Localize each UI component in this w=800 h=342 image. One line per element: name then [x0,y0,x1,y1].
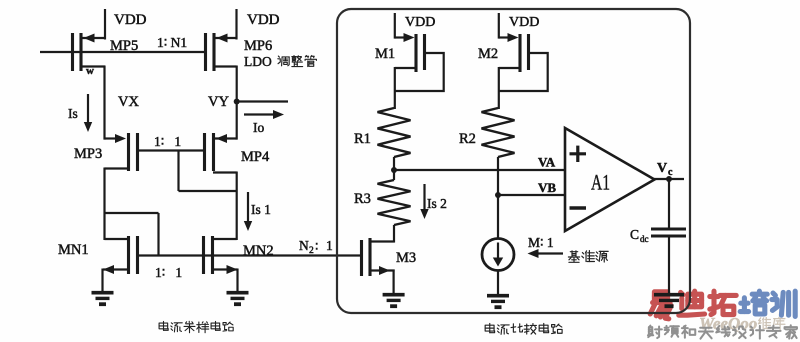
wire Vc to capacitor [668,178,670,229]
label 电流采样电路 [159,321,233,332]
wire gate bus MN1-MN2-M3 [139,254,361,256]
svg-text:MP5: MP5 [110,38,138,54]
label ratio 1:1 (bottom) [155,265,182,280]
svg-text:1: 1 [326,238,333,253]
wire capacitor to ground [668,236,670,295]
label 基准源 [568,251,608,263]
transistor M2 [499,33,548,91]
wire M1 drain vertical [394,67,396,109]
watermark text 射频和天线设计专家 [648,325,797,338]
svg-text:VDD: VDD [247,12,280,28]
label Cdc [630,227,649,244]
svg-text:MN1: MN1 [58,242,89,258]
wire current source to ground [497,271,499,296]
svg-text:A1: A1 [591,170,610,195]
watermark text 培训 [740,291,795,316]
svg-text:Is 2: Is 2 [427,196,447,211]
watermark text 维库 [758,317,784,329]
svg-text:1∶ 1: 1∶ 1 [155,265,182,280]
wire MP3 drain vertical [103,168,105,241]
current arrow Is [68,94,92,132]
wire MP4 diode connection [179,151,237,192]
label MP6 [244,38,272,54]
label 电流比较电路 [485,323,562,334]
label Vc [657,161,673,178]
label VA [538,155,556,170]
svg-text:C: C [630,227,639,242]
label ratio 1:N1 [157,35,187,50]
current arrow Io [244,110,284,135]
svg-text:2: 2 [309,246,314,256]
svg-text:c: c [668,167,673,178]
wire MN1 diode connection [105,213,159,256]
svg-text:Is 1: Is 1 [251,202,271,217]
svg-text:VDD: VDD [509,15,539,30]
ground M3 [383,295,405,307]
svg-text:R2: R2 [459,131,476,147]
label M1 [375,46,395,62]
svg-text:M∶ 1: M∶ 1 [528,235,554,250]
wire VB to op-amp [498,194,566,196]
label VX [118,94,139,110]
label MN2 [243,243,274,259]
svg-text:M3: M3 [396,250,416,266]
VDD supply MP5 [105,9,147,40]
svg-text:VDD: VDD [405,15,435,30]
wire node VY vertical [236,66,238,140]
label A1 [591,170,610,195]
transistor MP5 [73,33,106,71]
svg-text:VDD: VDD [114,12,147,28]
boundary box 电流比较电路 [337,9,690,313]
watermark text 易迪拓 [650,291,736,319]
current source reference [482,239,514,271]
svg-text:VX: VX [118,94,139,110]
transistor MN1 [103,236,138,274]
svg-text:Is: Is [68,106,78,121]
svg-text:VB: VB [538,180,556,195]
svg-text:MP6: MP6 [244,38,272,54]
svg-text:V: V [657,161,667,176]
ground current source [487,296,509,308]
ground MN1 [92,293,114,305]
label MN1 [58,242,89,258]
svg-text:MP3: MP3 [74,146,102,162]
op-amp A1 [565,128,655,231]
svg-text:dc: dc [640,234,649,244]
label MP4 [241,149,270,165]
transistor M3 [362,238,395,276]
svg-text:MP4: MP4 [241,149,270,165]
wire R2 to node VB [497,157,499,196]
label VB [538,180,556,195]
wire MN2 source to ground [236,269,238,293]
svg-text:Io: Io [253,120,264,135]
label MP3 [74,146,102,162]
svg-text:N: N [299,238,309,253]
VDD supply MP6 [237,9,280,40]
svg-text:LDO: LDO [244,54,272,69]
svg-text:∶: ∶ [315,239,318,254]
label M3 [396,250,416,266]
wire R3 to M3 drain [393,225,395,243]
svg-text:M1: M1 [375,46,395,62]
VDD supply M2 [499,13,540,39]
label M:1 [528,235,554,250]
wire M3 source to ground [393,270,395,295]
ground capacitor [654,295,684,307]
VDD supply M1 [395,13,436,39]
ground MN2 [227,293,249,305]
wire gate bus MP5-MP6 [40,51,206,53]
resistor R1 [354,108,411,157]
wire MP4 drain vertical [236,172,238,241]
node VB junction [495,192,501,198]
label LDO regulator [244,54,272,69]
svg-text:1∶ N1: 1∶ N1 [157,35,187,50]
svg-text:VY: VY [208,94,229,110]
transistor MP4 [205,133,237,173]
transistor MP3 [105,133,138,171]
wire VB to current source [497,195,499,239]
resistor R2 [459,108,515,157]
label ratio N2:1 [299,238,333,256]
current arrow Is1 [244,192,271,231]
transistor MN2 [204,236,238,274]
wire gate MP3-MP4 [139,149,205,151]
wire MN1 source to ground [101,269,103,293]
label 调整管 [278,56,317,67]
resistor R3 [354,170,411,225]
node VA junction [391,157,397,173]
wire op-amp output Vc [654,176,684,182]
wire node VX vertical [103,66,105,140]
node VY junction [208,94,288,110]
svg-text:R3: R3 [354,191,371,207]
transistor MP6 [206,33,237,71]
wire VA to op-amp [394,169,566,171]
svg-text:MN2: MN2 [243,243,274,259]
capacitor Cdc [651,229,686,236]
transistor M1 [395,33,444,91]
svg-text:M2: M2 [478,46,498,62]
svg-text:w: w [86,65,94,77]
label MP5 [110,38,138,54]
arrow to current source [528,249,564,258]
svg-text:1∶ 1: 1∶ 1 [154,134,181,149]
label M2 [478,46,498,62]
label w [86,65,94,77]
wire M2 drain vertical [498,67,500,109]
svg-text:R1: R1 [354,131,371,147]
svg-text:VA: VA [538,155,556,170]
current arrow Is2 [420,184,447,219]
label ratio 1:1 (top) [154,134,181,149]
